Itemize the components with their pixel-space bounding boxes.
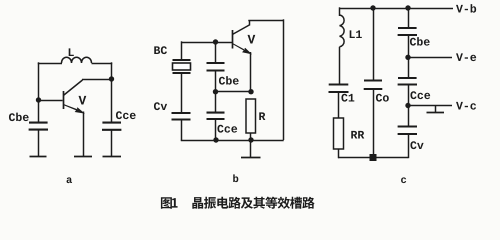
wire top rail b [182, 42, 233, 44]
resistor R [246, 99, 256, 133]
wire tap V-c [408, 105, 452, 107]
wire right column c seg3 [408, 57, 410, 78]
node V-c junction c [405, 103, 410, 108]
wire right column c seg2 [408, 35, 410, 57]
wire left column top c [339, 7, 341, 16]
wire middle column mid b [215, 71, 217, 93]
capacitor Cbe (circuit c) [398, 27, 417, 29]
terminal bar below Cce a [103, 156, 122, 158]
wire left rail a [38, 62, 40, 123]
wire right column c bottom [408, 134, 410, 158]
wire emitter a [83, 112, 85, 157]
label Cbe (circuit a) [9, 113, 29, 121]
crystal BC [173, 59, 191, 61]
wire tap V-e [408, 57, 452, 59]
node bottom rail junction b2 [248, 137, 253, 142]
label RR [351, 131, 364, 139]
wire left column mid c [339, 47, 341, 85]
transistor V (circuit a) [63, 91, 65, 109]
wire right column c seg4 [408, 85, 410, 106]
label L [69, 48, 74, 56]
wire below Cce a [111, 130, 113, 156]
inductor L [62, 57, 92, 63]
wire emitter drop b [250, 52, 252, 92]
label L1 [350, 30, 362, 38]
label R [259, 112, 265, 120]
wire middle column bottom b [215, 119, 217, 140]
wire collector a [82, 79, 112, 81]
node bottom rail junction b1 [213, 137, 218, 142]
transistor V (circuit b) [232, 30, 234, 49]
label V-e [456, 53, 476, 61]
label Cce (circuit c) [410, 91, 430, 99]
label a (sub-figure) [67, 177, 72, 183]
capacitor Cce (circuit c) [398, 77, 417, 79]
wire collector riser b [249, 20, 251, 26]
label V (circuit b) [248, 35, 256, 44]
capacitor Cce (circuit b) [207, 112, 225, 114]
wire right column c seg5 [408, 106, 410, 127]
label BC [154, 46, 167, 54]
label Cbe (circuit b) [219, 76, 239, 84]
label V (circuit a) [79, 96, 87, 105]
label Cce (circuit b) [217, 125, 237, 133]
label V-c [456, 102, 476, 110]
wire top rail a right [92, 63, 113, 65]
node collector junction a [109, 76, 114, 81]
label Cce (circuit a) [116, 111, 136, 119]
wire collector top b [248, 20, 283, 22]
inductor L1 [340, 15, 345, 47]
wire top rail c [339, 8, 453, 10]
capacitor Cbe (circuit b) [207, 62, 225, 64]
terminal bar below Cbe a [30, 156, 47, 158]
label Co [376, 94, 389, 102]
ground b bar [241, 157, 261, 159]
wire emitter node b [216, 91, 252, 93]
node Cbe-Cce junction b [213, 89, 218, 94]
wire below Cbe a [38, 130, 40, 156]
capacitor C1 [329, 83, 349, 85]
label C1 [341, 94, 354, 102]
wire left column upper b [181, 41, 183, 60]
label Cv (circuit c) [410, 141, 423, 149]
wire middle column lower c [373, 89, 375, 158]
ground c bar [427, 112, 445, 114]
label Cv (circuit b) [154, 102, 167, 110]
wire left column middle b [181, 73, 183, 113]
node top rail junction b [213, 39, 218, 44]
node emitter junction b [248, 89, 253, 94]
wire left column lower b [181, 120, 183, 141]
wire middle column lower b [215, 92, 217, 113]
terminal bar below emitter a [74, 156, 92, 158]
wire middle column upper b [215, 42, 217, 63]
capacitor Cce (circuit a) [102, 122, 121, 124]
wire below RR c [338, 149, 340, 158]
node base junction a [36, 97, 41, 102]
wire right rail a [111, 62, 113, 123]
label Cbe (circuit c) [410, 37, 430, 45]
caption text 图1 晶振电路及其等效槽路 [161, 197, 315, 209]
capacitor Cv (circuit c) [398, 125, 417, 127]
capacitor Co [364, 79, 382, 81]
ground c stem [435, 106, 437, 113]
node top rail junction c2 [405, 5, 410, 10]
wire bottom rail c [338, 157, 408, 159]
ground b stem [250, 140, 252, 157]
capacitor Cbe (circuit a) [29, 122, 48, 124]
label V-b [456, 4, 476, 12]
resistor RR [334, 118, 344, 149]
wire below R [250, 133, 252, 140]
node V-e junction c [405, 55, 410, 60]
wire right column top c [408, 8, 410, 28]
node top rail junction c1 [370, 5, 375, 10]
label b (sub-figure) [233, 174, 238, 182]
wire middle column upper c [373, 8, 375, 81]
capacitor Cv (circuit b) [172, 112, 191, 114]
wire bottom rail b [181, 140, 284, 142]
wire top rail a left [38, 63, 62, 65]
wire above RR c [338, 92, 340, 118]
label c (sub-figure) [401, 177, 406, 183]
node bottom rail junction c [370, 154, 377, 161]
wire right rail b [283, 19, 285, 140]
wire base a [39, 100, 63, 102]
